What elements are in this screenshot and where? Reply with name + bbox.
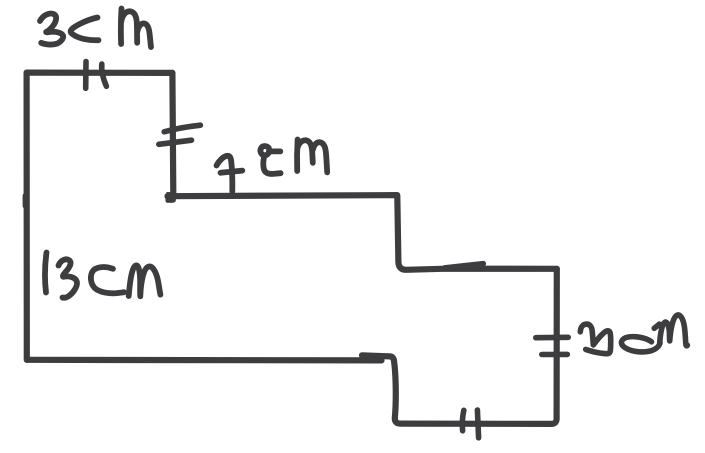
wire: step down from shelf and middle shelf [397, 196, 557, 270]
wire: overdraw stroke on middle shelf [445, 264, 484, 268]
junction overlap blob at shelf left end [165, 192, 176, 203]
wire: right side of upper box [169, 73, 176, 195]
wire: step shelf (7 cm side) [168, 195, 398, 196]
label "3cm" (top left) [40, 9, 151, 48]
wire: top edge (3 cm side) [27, 69, 172, 76]
tick mark pair on upper-box right side [159, 125, 201, 144]
seam nub on left edge [23, 196, 28, 207]
tick mark pair on top edge [86, 62, 107, 89]
label "3cm" (right side, slanted) [580, 315, 687, 354]
wire: main bottom edge [27, 357, 382, 364]
tick mark pair on right edge [536, 337, 568, 354]
label "7cm" (on step shelf) [217, 140, 328, 192]
wire: left edge (13 cm side) [24, 73, 30, 360]
tick mark pair on lower box bottom [462, 410, 478, 438]
label "13 cm" (left side) [45, 253, 160, 298]
wire: right edge (3 cm side) and bottom of lower box [362, 269, 557, 424]
